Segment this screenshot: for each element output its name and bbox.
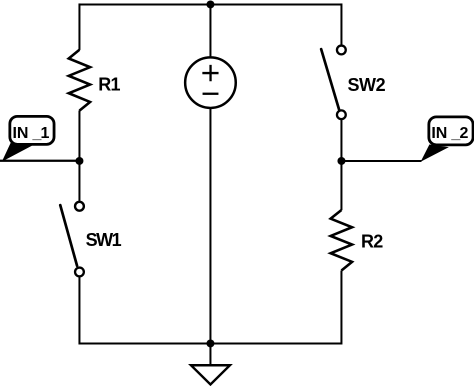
wire middle branch upper: [209, 4, 211, 56]
switch SW1: [60, 202, 84, 277]
switch SW2: [321, 46, 346, 120]
flag IN_1: [3, 116, 54, 160]
svg-text:SW1: SW1: [86, 230, 122, 250]
ground: [191, 343, 230, 384]
resistor R2: [331, 210, 352, 271]
flag IN_2: [422, 117, 473, 161]
svg-text:SW2: SW2: [347, 75, 385, 95]
node top junction: [206, 0, 214, 8]
wire left branch to SW1: [78, 161, 80, 201]
source V1: [185, 57, 236, 108]
wire bottom horizontal: [79, 342, 341, 344]
wire left branch upper: [78, 3, 80, 50]
wire right branch lower: [340, 270, 342, 344]
wire IN_1 stub: [0, 160, 79, 162]
wire right branch to junction: [340, 119, 342, 161]
node right junction: [337, 157, 345, 165]
wire IN_2 stub: [341, 160, 421, 162]
wire right branch upper: [340, 3, 342, 45]
wire left branch lower: [78, 277, 80, 345]
wire left branch middle: [78, 110, 80, 161]
svg-text:R1: R1: [98, 75, 120, 95]
wire top horizontal: [79, 3, 341, 5]
node bottom junction: [206, 339, 214, 347]
node left junction: [75, 157, 83, 165]
svg-text:R2: R2: [361, 231, 383, 251]
wire right branch middle: [340, 161, 342, 210]
wire middle branch lower: [209, 109, 211, 344]
resistor R1: [69, 50, 90, 111]
